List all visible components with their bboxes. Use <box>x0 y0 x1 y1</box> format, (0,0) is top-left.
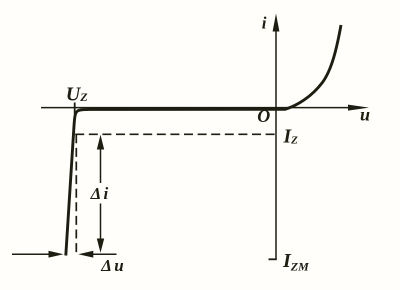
dashed vertical line from breakdown point <box>75 134 77 253</box>
i axis arrowhead <box>273 14 280 32</box>
dashed horizontal line at Iz level <box>75 133 276 135</box>
u axis arrowhead <box>348 105 369 111</box>
svg-text:i: i <box>262 13 267 32</box>
svg-text:Δi: Δi <box>90 184 111 203</box>
i axis bottom tick <box>269 258 277 260</box>
svg-text:O: O <box>257 106 270 126</box>
i axis <box>275 30 277 259</box>
diode characteristic curve <box>66 25 341 256</box>
delta-i arrow lower head <box>97 239 104 253</box>
delta-i arrow upper shaft <box>100 147 102 183</box>
svg-text:Δu: Δu <box>100 256 126 275</box>
delta-u left measurement line <box>12 253 50 255</box>
delta-u right arrowhead (points left) <box>78 251 93 258</box>
delta-i arrow lower shaft <box>100 204 102 241</box>
delta-i arrow upper head <box>97 135 104 150</box>
delta-u left arrowhead (points right) <box>49 251 64 258</box>
delta-u right measurement line <box>91 253 117 255</box>
u axis <box>41 107 352 109</box>
Uz tick on u axis <box>74 103 76 115</box>
svg-text:u: u <box>360 105 370 125</box>
